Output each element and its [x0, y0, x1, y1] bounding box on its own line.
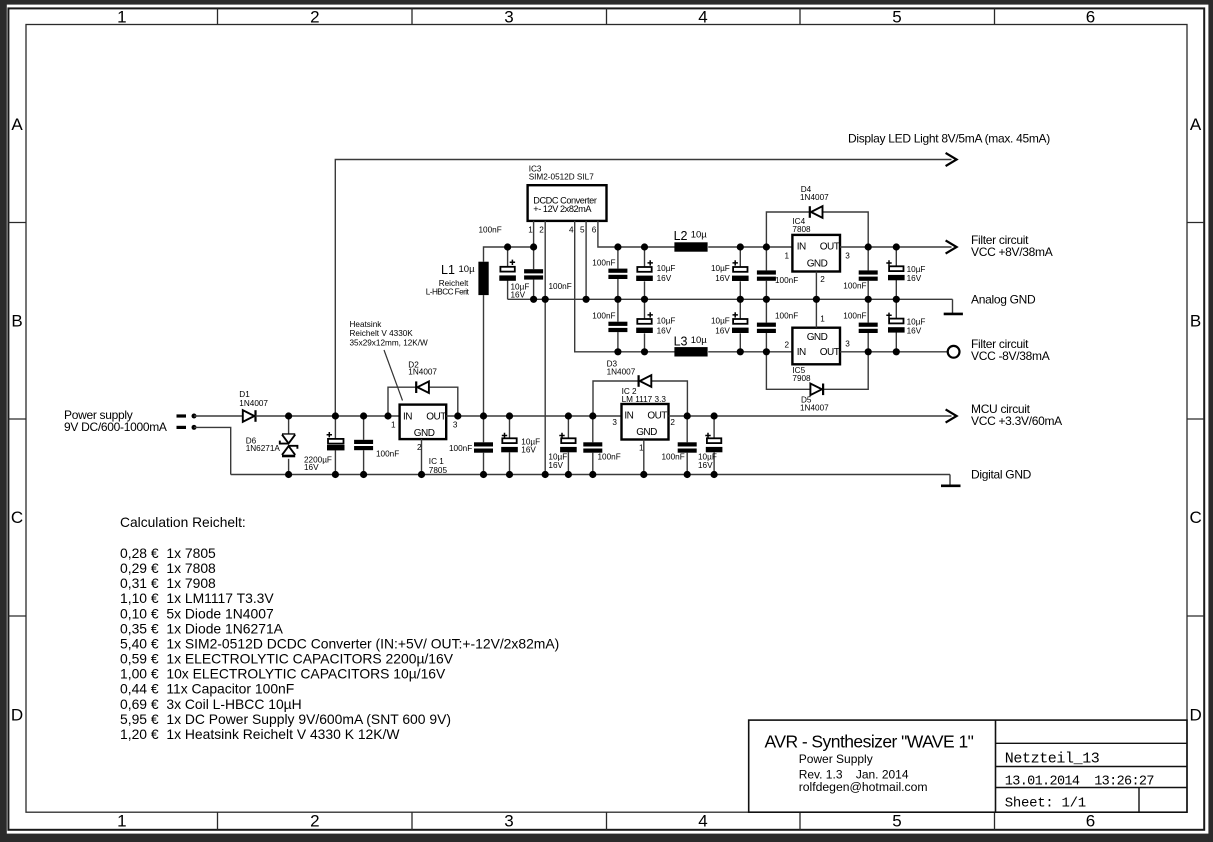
page border frame (dark) [0, 0, 1213, 5]
coil L1 10uH with vertical feed [483, 295, 485, 416]
terminal circle -8V output [948, 346, 960, 358]
capacitor 10uF/16V (before IC4) [739, 247, 741, 267]
svg-text:4: 4 [569, 225, 574, 234]
wire input to D1 [194, 415, 244, 417]
capacitor 10uF/16V (IC4 output) [895, 247, 897, 266]
wire bottom ground rail [231, 474, 950, 476]
DCDC pin 5 stub (gnd) [585, 221, 587, 299]
svg-text:1,10 € 1x LM1117 T3.3V: 1,10 € 1x LM1117 T3.3V [120, 590, 274, 606]
DCDC pin 1 stub [533, 221, 535, 247]
heatsink callout line [384, 350, 403, 401]
svg-text:L-HBCC Ferit: L-HBCC Ferit [426, 288, 470, 297]
svg-text:0,44 € 11x Capacitor 100nF: 0,44 € 11x Capacitor 100nF [120, 681, 294, 697]
capacitor 10uF/16V (IC5 output) [895, 299, 897, 318]
svg-text:1: 1 [117, 7, 126, 26]
svg-text:16V: 16V [907, 274, 922, 283]
svg-text:0,69 € 3x Coil L-HBCC 10µH: 0,69 € 3x Coil L-HBCC 10µH [120, 696, 302, 712]
wire DCDC ground rail [508, 298, 953, 300]
svg-text:Digital GND: Digital GND [971, 467, 1032, 481]
svg-text:1N4007: 1N4007 [607, 367, 636, 376]
svg-text:10µF: 10µF [657, 317, 676, 326]
svg-text:GND: GND [636, 427, 657, 438]
IC2 pin 1 stub [643, 440, 645, 475]
wire IC1 output +5V rail [446, 415, 621, 417]
wire display LED light tap (top) [335, 160, 951, 417]
svg-text:1: 1 [391, 420, 396, 429]
svg-text:L3: L3 [674, 334, 688, 348]
svg-text:10µ: 10µ [459, 264, 476, 275]
svg-text:100nF: 100nF [479, 226, 502, 235]
svg-text:5: 5 [892, 7, 901, 26]
svg-text:6: 6 [1086, 812, 1095, 831]
svg-text:5: 5 [892, 812, 901, 831]
DCDC converter IC3 SIM2-0512D [528, 185, 607, 221]
svg-text:1N4007: 1N4007 [800, 404, 829, 413]
svg-text:16V: 16V [657, 326, 672, 335]
svg-text:L1: L1 [441, 263, 455, 277]
capacitor 100nF (input) [363, 416, 365, 440]
svg-text:1N6271A: 1N6271A [246, 444, 281, 453]
svg-text:3: 3 [612, 418, 617, 427]
svg-text:100nF: 100nF [598, 453, 621, 462]
svg-text:100nF: 100nF [449, 444, 472, 453]
svg-text:Display LED Light 8V/5mA (max.: Display LED Light 8V/5mA (max. 45mA) [848, 132, 1050, 146]
svg-text:Analog GND: Analog GND [971, 292, 1036, 306]
svg-text:13.01.2014 13:26:27: 13.01.2014 13:26:27 [1005, 775, 1155, 790]
svg-text:4: 4 [698, 812, 707, 831]
svg-text:6: 6 [1086, 7, 1095, 26]
svg-text:Netzteil_13: Netzteil_13 [1005, 750, 1100, 767]
junctions on bottom ground rail [285, 471, 718, 478]
svg-text:VCC +3.3V/60mA: VCC +3.3V/60mA [971, 414, 1062, 428]
svg-text:2: 2 [539, 225, 544, 234]
svg-text:Reichelt V 4330K: Reichelt V 4330K [350, 329, 414, 338]
svg-text:0,35 € 1x Diode 1N6271A: 0,35 € 1x Diode 1N6271A [120, 620, 284, 636]
junctions on input/+5V/+3.3V rail [285, 412, 718, 419]
arrow to MCU circuit [946, 409, 957, 422]
svg-text:6: 6 [592, 225, 597, 234]
IC4 pin 2 stub [815, 272, 817, 300]
svg-text:100nF: 100nF [662, 453, 685, 462]
svg-text:AVR - Synthesizer "WAVE 1": AVR - Synthesizer "WAVE 1" [765, 732, 974, 752]
svg-text:2: 2 [310, 812, 319, 831]
svg-text:3: 3 [453, 420, 458, 429]
svg-text:100nF: 100nF [549, 282, 572, 291]
wire IC4 output +8V [840, 246, 952, 248]
svg-text:7908: 7908 [792, 374, 811, 383]
svg-text:1N4007: 1N4007 [408, 368, 437, 377]
title block outline [749, 720, 1187, 812]
svg-text:C: C [11, 508, 23, 527]
arrow to Display LED Light [946, 153, 957, 166]
svg-text:100nF: 100nF [843, 282, 866, 291]
svg-text:2: 2 [820, 275, 825, 284]
capacitor 100nF at L1 bottom [483, 416, 485, 442]
svg-text:L2: L2 [674, 229, 688, 243]
power input terminal pin 2 [177, 426, 187, 429]
svg-text:5: 5 [580, 225, 585, 234]
wire D1 to IC1 input [256, 415, 400, 417]
svg-text:IN: IN [403, 411, 412, 422]
capacitor 100nF (IC4 input) [765, 247, 767, 270]
svg-text:GND: GND [807, 259, 828, 270]
svg-text:10µF: 10µF [657, 264, 676, 273]
svg-text:1: 1 [820, 314, 825, 323]
DCDC pin 6 stub (+12V) [598, 221, 675, 247]
regulator IC1 7805 [400, 405, 447, 440]
capacitor 10uF/16V (IC2 output) [713, 416, 715, 438]
svg-text:5,95 € 1x DC Power Supply 9V/: 5,95 € 1x DC Power Supply 9V/600mA (SNT … [120, 711, 451, 727]
svg-text:100nF: 100nF [775, 276, 798, 285]
svg-text:Sheet: 1/1: Sheet: 1/1 [1005, 796, 1086, 812]
analog ground symbol [952, 299, 954, 313]
svg-text:OUT: OUT [820, 242, 840, 253]
svg-text:16V: 16V [657, 274, 672, 283]
svg-text:2: 2 [670, 418, 675, 427]
svg-text:100nF: 100nF [376, 449, 399, 458]
svg-text:3: 3 [845, 339, 850, 348]
capacitor 10uF/16V (IC2 input b) [567, 416, 569, 438]
svg-text:Calculation Reichelt:: Calculation Reichelt: [120, 515, 246, 530]
svg-text:+- 12V 2x82mA: +- 12V 2x82mA [533, 204, 592, 214]
wire IC2 output +3.3V [669, 415, 952, 417]
svg-text:1: 1 [117, 812, 126, 831]
capacitor 100nF (-12V row) [617, 299, 619, 321]
svg-text:SIM2-0512D SIL7: SIM2-0512D SIL7 [529, 172, 595, 181]
svg-text:100nF: 100nF [775, 312, 798, 321]
digital ground symbol [949, 475, 951, 485]
power input terminal pin 1 [177, 414, 187, 417]
diode D1 1N4007 [243, 410, 255, 422]
svg-text:16V: 16V [698, 461, 713, 470]
svg-text:100nF: 100nF [592, 311, 615, 320]
svg-text:7805: 7805 [429, 466, 448, 475]
svg-text:1N4007: 1N4007 [239, 399, 268, 408]
coil L3 10uH [674, 347, 707, 356]
svg-text:16V: 16V [548, 461, 563, 470]
svg-text:IN: IN [797, 242, 806, 253]
regulator IC2 LM1117 3.3 [622, 404, 669, 440]
wire IC5 output -8V [840, 351, 948, 353]
row tick marks left band [8, 223, 26, 617]
svg-text:B: B [11, 312, 22, 331]
diode D2 1N4007 across IC1 [388, 387, 416, 416]
suppressor diode D6 1N6271A [288, 416, 290, 434]
IC5 pin 1 stub [815, 299, 817, 327]
svg-text:10µ: 10µ [691, 335, 708, 346]
svg-text:100nF: 100nF [592, 258, 615, 267]
svg-text:2: 2 [417, 443, 422, 452]
svg-text:4: 4 [698, 7, 707, 26]
capacitor 10uF/16V (+12V row) [644, 247, 646, 267]
svg-text:OUT: OUT [647, 410, 667, 421]
svg-text:Power Supply: Power Supply [799, 752, 873, 766]
svg-text:1: 1 [528, 225, 533, 234]
svg-text:IN: IN [624, 410, 633, 421]
svg-text:1N4007: 1N4007 [800, 193, 829, 202]
svg-text:IC 1: IC 1 [429, 457, 444, 466]
svg-text:D1: D1 [239, 390, 250, 399]
svg-text:A: A [1190, 115, 1202, 134]
junctions on -12V wire [614, 348, 900, 355]
svg-text:0,29 € 1x 7808: 0,29 € 1x 7808 [120, 560, 216, 576]
svg-text:16V: 16V [715, 326, 730, 335]
column tick marks top band [218, 8, 995, 24]
svg-text:VCC -8V/38mA: VCC -8V/38mA [971, 349, 1050, 363]
coil L2 10uH [674, 242, 707, 251]
svg-text:1: 1 [785, 252, 790, 261]
svg-text:100nF: 100nF [843, 312, 866, 321]
svg-text:GND: GND [807, 332, 828, 343]
svg-text:D: D [11, 706, 23, 725]
svg-text:C: C [1189, 508, 1201, 527]
arrow to Filter circuit +8V [946, 240, 957, 253]
junctions on DCDC ground rail [530, 296, 900, 303]
svg-text:35x29x12mm, 12K/W: 35x29x12mm, 12K/W [350, 339, 429, 348]
capacitor 100nF (+12V row) [617, 247, 619, 269]
svg-text:16V: 16V [521, 446, 536, 455]
svg-text:1,00 € 10x ELECTROLYTIC CAPAC: 1,00 € 10x ELECTROLYTIC CAPACITORS 10µ/1… [120, 666, 446, 682]
svg-text:2: 2 [785, 340, 790, 349]
diode D4 1N4007 across IC4 [766, 212, 809, 247]
svg-text:7808: 7808 [792, 225, 811, 234]
capacitor 100nF (IC5 output) [867, 299, 869, 322]
svg-text:9V DC/600-1000mA: 9V DC/600-1000mA [64, 420, 167, 434]
svg-text:rolfdegen@hotmail.com: rolfdegen@hotmail.com [799, 780, 928, 794]
regulator IC5 7908 [792, 328, 840, 365]
svg-text:0,28 € 1x 7805: 0,28 € 1x 7805 [120, 545, 216, 561]
svg-text:A: A [11, 115, 23, 134]
svg-text:16V: 16V [511, 290, 526, 299]
svg-text:0,10 € 5x Diode 1N4007: 0,10 € 5x Diode 1N4007 [120, 605, 274, 621]
svg-text:3: 3 [845, 252, 850, 261]
svg-text:1,20 € 1x Heatsink Reichelt V: 1,20 € 1x Heatsink Reichelt V 4330 K 12K… [120, 726, 400, 742]
capacitor 10uF/16V (before IC5) [739, 299, 741, 319]
svg-text:OUT: OUT [426, 411, 446, 422]
calculation list [120, 545, 559, 742]
svg-text:16V: 16V [304, 463, 319, 472]
svg-text:LM 1117 3.3: LM 1117 3.3 [622, 395, 667, 404]
svg-text:10µF: 10µF [907, 317, 926, 326]
capacitor 10uF/16V (DCDC input) [507, 247, 509, 267]
capacitor 10uF/16V (-12V row) [644, 299, 646, 319]
junctions on +12V wire [504, 243, 900, 250]
capacitor 100nF (IC4 output) [867, 247, 869, 270]
DCDC pin 2 stub (gnd, down to digital gnd) [544, 221, 546, 475]
svg-text:10µF: 10µF [711, 264, 730, 273]
svg-text:B: B [1190, 312, 1201, 331]
svg-text:16V: 16V [715, 274, 730, 283]
svg-text:16V: 16V [907, 326, 922, 335]
capacitor 100nF (IC2 output) [686, 416, 688, 442]
DCDC pin 4 stub (-12V) [575, 221, 675, 352]
svg-text:D: D [1189, 706, 1201, 725]
svg-text:10µF: 10µF [711, 317, 730, 326]
capacitor 2200uF/16V electrolytic [334, 416, 336, 439]
svg-text:10µF: 10µF [907, 265, 926, 274]
svg-text:2: 2 [310, 7, 319, 26]
svg-text:GND: GND [414, 428, 435, 439]
capacitor 10uF/16V (IC2 input a) [509, 416, 511, 438]
capacitor 100nF (IC2 input) [592, 416, 594, 442]
wire input return (lower) [194, 427, 231, 474]
svg-text:5,40 € 1x SIM2-0512D DCDC Con: 5,40 € 1x SIM2-0512D DCDC Converter (IN:… [120, 635, 559, 651]
svg-text:3: 3 [504, 812, 513, 831]
regulator IC4 7808 [792, 235, 840, 272]
capacitor 100nF (IC5 input) [765, 299, 767, 322]
diode D5 1N4007 across IC5 [766, 352, 810, 390]
column tick marks bottom band [218, 812, 995, 830]
diode D3 1N4007 across IC2 [593, 381, 639, 416]
svg-text:3: 3 [504, 7, 513, 26]
svg-text:0,31 € 1x 7908: 0,31 € 1x 7908 [120, 575, 216, 591]
capacitor 100nF at DCDC pin1 [533, 247, 535, 269]
svg-text:OUT: OUT [820, 347, 840, 358]
svg-text:10µ: 10µ [691, 230, 708, 241]
row tick marks right band [1187, 223, 1204, 617]
svg-text:Heatsink: Heatsink [350, 320, 383, 329]
svg-text:VCC +8V/38mA: VCC +8V/38mA [971, 245, 1053, 259]
svg-text:IN: IN [797, 347, 806, 358]
IC1 pin 2 stub and label [421, 439, 423, 474]
svg-text:0,59 € 1x ELECTROLYTIC CAPACI: 0,59 € 1x ELECTROLYTIC CAPACITORS 2200µ/… [120, 651, 454, 667]
